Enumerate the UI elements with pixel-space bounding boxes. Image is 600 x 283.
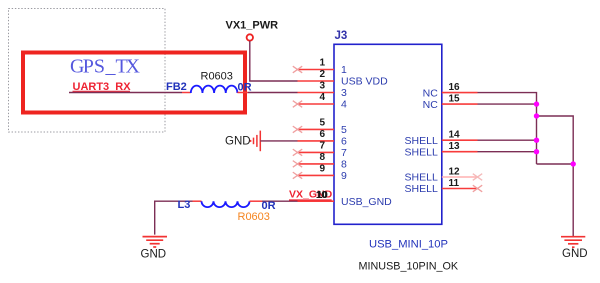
svg-text:3: 3 <box>319 81 325 92</box>
svg-text:12: 12 <box>449 167 461 178</box>
ground GND (bottom left) <box>141 237 168 261</box>
svg-text:0R: 0R <box>262 200 276 212</box>
pin 4 <box>298 92 348 111</box>
pin 2 <box>298 69 389 88</box>
no-connect X pin 4 <box>293 101 302 108</box>
wire pin 14 to bus <box>478 139 537 141</box>
svg-text:2: 2 <box>319 69 325 80</box>
svg-text:1: 1 <box>319 58 325 69</box>
wire pin 13 to bus <box>478 151 537 153</box>
wire pin 15 to bus <box>478 103 537 105</box>
ground GND (pin 6) <box>225 131 260 152</box>
svg-text:0R: 0R <box>238 82 252 94</box>
pin 7 <box>298 140 348 159</box>
dashed selection box <box>9 9 166 133</box>
svg-text:USB_GND: USB_GND <box>341 196 392 208</box>
pin 14 <box>405 130 478 147</box>
svg-text:GND: GND <box>562 248 588 260</box>
svg-text:L3: L3 <box>178 199 191 211</box>
svg-text:J3: J3 <box>335 30 348 42</box>
net label UART3_RX <box>73 81 132 93</box>
svg-text:GND: GND <box>141 249 167 261</box>
wire to bottom-left ground <box>155 201 298 234</box>
svg-text:SHELL: SHELL <box>405 135 438 147</box>
inductor L3 <box>193 201 263 207</box>
pin 9 <box>298 163 348 182</box>
svg-text:6: 6 <box>341 136 347 148</box>
connector J3 body <box>334 44 442 224</box>
svg-text:7: 7 <box>341 147 347 159</box>
svg-text:5: 5 <box>319 117 325 128</box>
pin 15 <box>423 94 478 111</box>
svg-text:SHELL: SHELL <box>405 172 438 184</box>
svg-text:16: 16 <box>449 82 461 93</box>
pin 13 <box>405 141 478 158</box>
pin 1 <box>298 58 348 77</box>
no-connect X pin 9 <box>293 172 302 179</box>
no-connect X pin 11 <box>473 185 482 192</box>
svg-text:4: 4 <box>341 99 347 111</box>
wire FB2 to pin 3 <box>248 92 298 94</box>
svg-text:VX1_PWR: VX1_PWR <box>226 20 279 32</box>
svg-text:8: 8 <box>341 159 347 171</box>
svg-text:14: 14 <box>449 130 461 141</box>
svg-text:8: 8 <box>319 152 325 163</box>
junction dot pin 15 <box>534 101 539 106</box>
no-connect X pin 1 <box>293 66 302 73</box>
pin 11 <box>405 178 478 195</box>
svg-text:9: 9 <box>341 170 347 182</box>
red highlight box <box>23 53 245 113</box>
svg-text:4: 4 <box>319 92 325 103</box>
svg-text:NC: NC <box>423 87 439 99</box>
svg-text:13: 13 <box>449 141 461 152</box>
pin 10 <box>298 190 393 208</box>
svg-text:3: 3 <box>341 87 347 99</box>
wire UART3_RX to FB2 <box>69 92 182 94</box>
svg-text:GPS_TX: GPS_TX <box>70 56 141 78</box>
wire VX1_PWR to pin 2 <box>250 41 298 81</box>
svg-text:FB2: FB2 <box>166 81 187 93</box>
pin 5 <box>298 117 348 136</box>
ground GND (bottom right) <box>561 237 588 260</box>
svg-text:15: 15 <box>449 94 461 105</box>
ferrite bead FB2 <box>182 86 248 93</box>
pin 6 <box>298 129 348 148</box>
svg-text:11: 11 <box>449 178 460 189</box>
svg-text:9: 9 <box>319 163 325 174</box>
junction dot upper branch <box>534 113 539 118</box>
junction dot ground branch <box>571 161 576 166</box>
wire bus to ground <box>572 164 574 236</box>
no-connect X pin 12 <box>473 174 482 181</box>
pin 12 <box>405 167 478 184</box>
pin 16 <box>423 82 478 99</box>
svg-text:SHELL: SHELL <box>405 183 438 195</box>
svg-text:USB_MINI_10P: USB_MINI_10P <box>369 239 448 251</box>
pin 8 <box>298 152 348 171</box>
svg-text:5: 5 <box>341 124 347 136</box>
svg-text:USB VDD: USB VDD <box>341 76 388 88</box>
svg-text:7: 7 <box>319 140 325 151</box>
svg-text:1: 1 <box>341 64 347 76</box>
junction dot pin 13 <box>534 149 539 154</box>
svg-text:R0603: R0603 <box>201 71 233 83</box>
svg-text:MINUSB_10PIN_OK: MINUSB_10PIN_OK <box>359 261 459 273</box>
svg-text:10: 10 <box>317 190 329 201</box>
no-connect X pin 7 <box>293 149 302 156</box>
wire loop upper branch <box>537 116 574 164</box>
svg-text:R0603: R0603 <box>238 211 270 223</box>
wire loop bottom branch <box>537 163 574 165</box>
svg-text:6: 6 <box>319 129 325 140</box>
no-connect X pin 8 <box>293 161 302 168</box>
svg-text:NC: NC <box>423 99 439 111</box>
svg-text:GND: GND <box>225 136 251 148</box>
wire GND to pin 6 <box>260 140 297 142</box>
junction dot pin 14 <box>534 138 539 143</box>
power symbol VX1_PWR <box>226 20 279 41</box>
no-connect X pin 5 <box>293 126 302 133</box>
svg-text:SHELL: SHELL <box>405 146 438 158</box>
net label VX_GND <box>289 189 333 201</box>
pin 3 <box>298 81 348 100</box>
wire pin 16 to bus <box>478 93 537 164</box>
